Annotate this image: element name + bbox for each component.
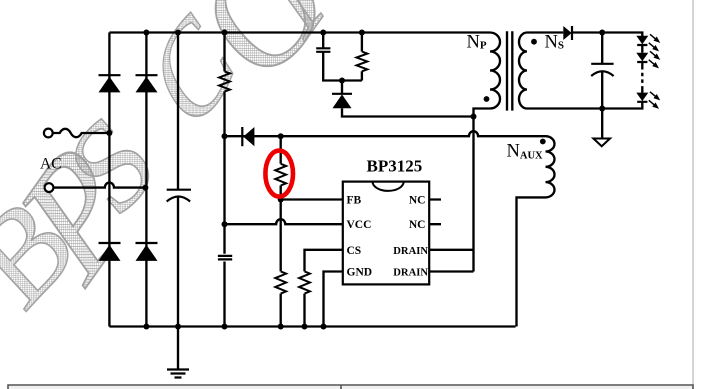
svg-text:DRAIN: DRAIN xyxy=(393,268,428,279)
svg-text:NAUX: NAUX xyxy=(507,142,544,162)
svg-text:NP: NP xyxy=(467,32,487,52)
svg-text:DRAIN: DRAIN xyxy=(393,246,428,257)
svg-text:VCC: VCC xyxy=(347,219,372,231)
svg-text:CS: CS xyxy=(347,245,362,257)
svg-text:NC: NC xyxy=(409,219,426,231)
svg-text:NC: NC xyxy=(409,194,426,206)
svg-text:FB: FB xyxy=(347,194,362,206)
svg-text:GND: GND xyxy=(347,267,373,279)
svg-text:NS: NS xyxy=(545,32,565,52)
svg-text:BP3125: BP3125 xyxy=(367,157,423,176)
svg-text:AC: AC xyxy=(40,156,62,173)
